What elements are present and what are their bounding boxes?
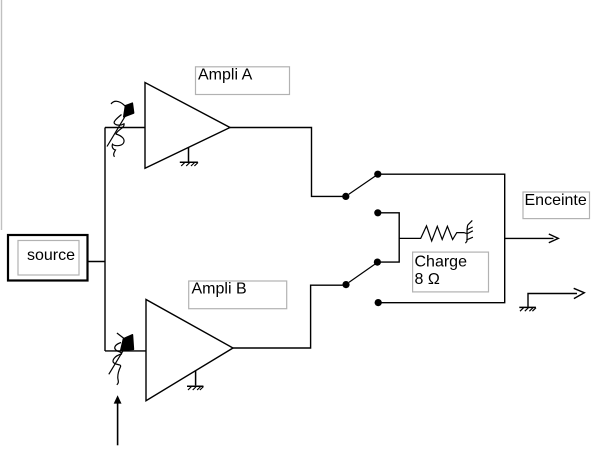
svg-text:Charge: Charge [415,254,468,271]
svg-text:Ampli B: Ampli B [192,281,247,298]
svg-text:Ampli A: Ampli A [198,67,253,84]
svg-text:8 Ω: 8 Ω [415,271,440,288]
svg-text:Enceinte: Enceinte [525,192,587,209]
svg-text:source: source [27,247,75,264]
